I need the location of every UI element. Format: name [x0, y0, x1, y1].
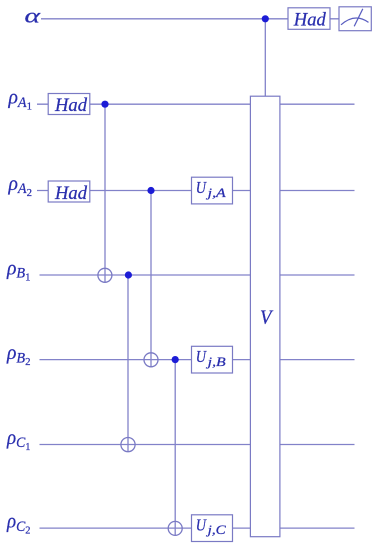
CNOT target on B2 — [144, 353, 158, 367]
gate U_jC — [192, 515, 233, 542]
wire rho_C2 — [40, 527, 355, 529]
svg-text:Had: Had — [293, 10, 326, 31]
svg-text:j,B: j,B — [205, 355, 226, 369]
wire control B1 to C1 target — [127, 275, 129, 452]
wire rho_C1 — [40, 444, 355, 446]
CNOT target on C1 — [121, 438, 135, 452]
svg-text:U: U — [196, 347, 208, 366]
gate Had on A2 — [48, 181, 90, 202]
wire control alpha to V — [264, 19, 266, 96]
svg-text:Had: Had — [54, 95, 87, 116]
measurement meter dial — [341, 9, 369, 27]
gate V — [250, 96, 280, 537]
gate U_jB — [192, 346, 233, 373]
control dot on alpha — [262, 15, 269, 22]
measurement meter box — [339, 7, 371, 31]
gate Had on A1 — [48, 94, 90, 115]
wire rho_A2 — [37, 190, 355, 192]
control dot on A1 — [101, 101, 108, 108]
gate Had on alpha — [288, 8, 330, 30]
svg-text:j,A: j,A — [205, 186, 226, 200]
control dot on B1 — [125, 271, 132, 278]
wire control B2 to C2 target — [174, 360, 176, 536]
svg-text:Had: Had — [54, 183, 87, 204]
wire alpha — [41, 18, 339, 20]
svg-text:j,C: j,C — [205, 523, 226, 537]
CNOT target on C2 — [168, 521, 182, 535]
CNOT target on B1 — [98, 268, 112, 282]
svg-text:U: U — [196, 515, 208, 534]
control dot on B2 — [172, 356, 179, 363]
wire control A2 to B2 target — [150, 191, 152, 367]
svg-text:U: U — [196, 178, 208, 197]
wire control A1 to B1 target — [104, 104, 106, 282]
wire rho_A1 — [37, 103, 355, 105]
control dot on A2 — [147, 187, 154, 194]
gate U_jA — [192, 177, 233, 204]
svg-text:α: α — [25, 3, 42, 27]
wire rho_B1 — [40, 274, 355, 276]
wire rho_B2 — [40, 359, 355, 361]
